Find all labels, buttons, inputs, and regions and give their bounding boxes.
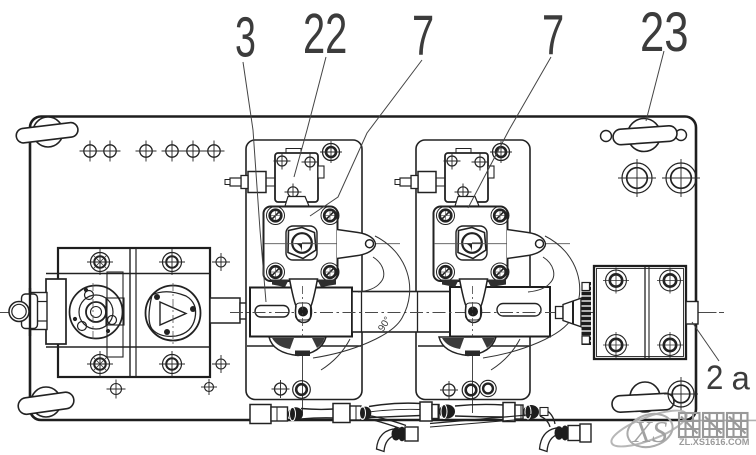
watermark baseline <box>694 419 756 421</box>
A1 air fitting left <box>248 172 266 193</box>
A2 pivot bracket <box>507 230 546 259</box>
hose bundle F3-F4 <box>455 404 504 406</box>
centerline over bars <box>230 312 724 314</box>
A2 cylinder body <box>434 207 508 282</box>
flange vertical centerlines <box>92 283 94 342</box>
A2 lower screw big <box>462 381 480 399</box>
connecting rod <box>352 292 450 333</box>
A1 swing arc 90deg <box>313 236 410 358</box>
hose F4 to low fitting B <box>544 409 555 424</box>
handwheel ball end <box>9 302 29 322</box>
A2 bracket hole <box>536 240 544 248</box>
housing split lines <box>46 273 210 275</box>
A1 shoulder wedge left <box>272 280 289 288</box>
locating bushing bottom-right <box>664 377 698 411</box>
housing corner bolt BR <box>163 355 182 374</box>
lifting lug bottom-left <box>17 387 75 417</box>
air fitting F4 <box>503 403 515 422</box>
adjusting screw stack left <box>46 279 66 344</box>
A2 lower centerline <box>472 356 474 413</box>
watermark ellipse <box>623 409 676 452</box>
A2 air fitting left <box>418 172 436 193</box>
housing corner bolt BL <box>91 355 110 374</box>
slide bar 1 slot <box>255 306 289 318</box>
tailstock rear tab <box>686 302 698 325</box>
chuck flange left <box>70 286 125 339</box>
tailstock bolt 4 <box>660 335 681 356</box>
A2 vertical centerline <box>472 218 474 286</box>
A1 vertical centerline <box>302 218 304 286</box>
mounting hole H1 <box>84 145 96 157</box>
A1 clamp nut hexagon <box>288 228 316 259</box>
mounting hole H6 <box>208 145 220 157</box>
A2 bracket centerline <box>434 243 570 245</box>
leader for 22 <box>294 57 326 177</box>
air fitting F3 <box>420 402 432 421</box>
A2 adapter trapezoid <box>455 197 479 207</box>
svg-text:7: 7 <box>542 4 564 68</box>
A2 valve top nipple <box>456 149 471 154</box>
clamp assembly A1: riser plate <box>246 140 362 400</box>
A2 arm pivot <box>468 307 478 317</box>
hose lowA to lowB <box>430 415 533 424</box>
A1 swing arc tail <box>321 339 350 370</box>
A1 adapter trapezoid <box>285 197 309 207</box>
hose F2 to low fitting A <box>369 416 406 426</box>
lifting lug top-right <box>601 119 687 152</box>
A1 clamp stud circle <box>292 233 312 253</box>
A2 shaded wedge right <box>482 338 495 348</box>
A1 solenoid valve block <box>275 153 318 202</box>
A1 lower centerline <box>302 356 304 413</box>
drive output shaft <box>210 298 240 323</box>
A1 arm pocket <box>296 303 311 320</box>
A1 arm centerline <box>302 286 304 350</box>
low fitting A <box>377 429 397 452</box>
slide bar 2 <box>450 287 550 337</box>
svg-text:XS: XS <box>631 414 667 449</box>
tailstock split line <box>644 266 646 359</box>
A1 boss square <box>286 226 317 260</box>
mounting hole H3 <box>140 145 152 157</box>
tailstock bolt 1 <box>606 270 627 291</box>
A1 arm lower boss <box>269 337 326 356</box>
svg-text:22: 22 <box>303 2 347 66</box>
knurl tab top <box>582 283 590 291</box>
A2 arm centerline <box>472 286 474 350</box>
A2 solenoid valve block <box>445 153 488 202</box>
hose bundle F1-F2 <box>301 408 334 411</box>
leader for 3 <box>243 62 266 302</box>
mounting hole H5 <box>187 145 199 157</box>
A1 cylinder bolts <box>267 207 285 225</box>
A1 shaded wedge left <box>272 338 294 349</box>
dowel hole below-left <box>111 384 122 395</box>
tailstock spring knurl <box>582 282 592 345</box>
slide bar 1 <box>250 288 352 337</box>
A1 bracket centerline <box>264 243 400 245</box>
A1 lower screw big <box>293 381 311 399</box>
A2 lower screw extra <box>480 380 496 396</box>
svg-text:a: a <box>732 360 751 397</box>
svg-text:ZL.XS1616.COM: ZL.XS1616.COM <box>679 437 750 447</box>
svg-text:3: 3 <box>235 6 256 70</box>
base plate <box>30 117 696 421</box>
plate edge overdraw <box>29 288 31 336</box>
A2 valve screws <box>447 156 457 166</box>
watermark CJK glyphs <box>679 413 700 437</box>
dowel hole right-bottom <box>216 359 226 369</box>
handwheel nut flange <box>22 294 38 329</box>
A2 shoulder wedge left <box>442 280 459 288</box>
A2 swing arc inner <box>528 257 554 292</box>
A1 corner bolt dark <box>323 144 340 161</box>
hose bundle F2-F3 <box>369 403 421 406</box>
A1 shoulder wedge right <box>317 280 336 288</box>
A2 swing arc tail <box>491 339 520 370</box>
A2 shoulder wedge right <box>487 280 506 288</box>
A2 clamp stud circle <box>462 233 482 253</box>
A2 boss square <box>456 226 487 260</box>
A1 arm tab <box>295 351 310 357</box>
A1 arm pivot <box>298 307 308 317</box>
A2 shaded wedge left <box>442 338 464 349</box>
knurl tab bottom <box>582 336 590 344</box>
mounting hole H2 <box>104 145 116 157</box>
dowel hole right-top <box>216 257 226 267</box>
svg-text:7: 7 <box>412 4 434 68</box>
riser edge over rod A2 <box>417 292 419 333</box>
air fitting F1 <box>250 405 271 424</box>
tailstock bolt 2 <box>660 270 681 291</box>
A1 bracket hole <box>366 240 374 248</box>
svg-text:2: 2 <box>706 358 723 397</box>
svg-text:23: 23 <box>640 1 689 63</box>
tailstock poppet neck <box>556 307 564 319</box>
tailstock block <box>594 266 686 359</box>
F4 nose <box>540 408 548 416</box>
A2 clamp arm <box>460 279 488 323</box>
leader for 7 second <box>468 57 551 208</box>
lifting lug bottom-right <box>612 382 675 413</box>
watermark swoosh <box>608 403 691 453</box>
dowel hole below-right <box>205 383 214 392</box>
A2 clamp nut hexagon <box>458 228 486 259</box>
jaw guide plate <box>107 272 123 357</box>
locating bushing top-right 2 <box>662 159 700 197</box>
A2 lower screw small <box>443 384 455 396</box>
mounting hole H4 <box>166 145 178 157</box>
lifting lug top-left <box>15 117 78 147</box>
A1 valve screws <box>277 156 287 166</box>
A2 corner bolt dark <box>493 144 510 161</box>
A1 cylinder body <box>264 207 338 282</box>
A1 swing arc inner <box>358 257 384 292</box>
low fitting B <box>540 428 560 452</box>
leader for 7 first <box>310 60 422 216</box>
leader for 23 <box>646 51 664 121</box>
locating bushing top-right 1 <box>618 159 656 197</box>
A2 valve side tab <box>488 166 494 178</box>
clamp assembly A2: riser plate <box>416 140 530 400</box>
main horizontal centerline <box>0 312 724 314</box>
housing corner bolt TL <box>91 253 110 272</box>
A2 arm pocket <box>466 303 481 320</box>
housing corner bolt TR <box>163 253 182 272</box>
left drive housing <box>58 248 210 377</box>
A1 shaded wedge right <box>312 338 325 348</box>
A1 valve top nipple <box>286 149 301 154</box>
A1 pivot bracket <box>337 230 376 259</box>
riser split line A2 <box>418 345 530 347</box>
drive shaft tip <box>252 304 264 319</box>
A2 swing arc 90deg <box>483 236 580 358</box>
A1 valve side tab <box>318 166 324 178</box>
air fitting F2 <box>333 404 350 423</box>
A2 arm tab <box>465 351 480 357</box>
A1 lower screw small <box>275 383 287 395</box>
tailstock poppet cone <box>563 298 581 327</box>
tailstock bolt 3 <box>606 335 627 356</box>
chuck flange right <box>146 286 201 341</box>
leader for 2a <box>692 322 719 361</box>
slide bar 2 slot <box>497 304 541 317</box>
riser edge over rod A1 <box>361 292 363 333</box>
A1 clamp arm <box>290 279 318 323</box>
A2 cylinder bolts <box>437 207 455 225</box>
riser split line A1 <box>247 345 361 347</box>
A2 arm lower boss <box>439 337 496 356</box>
